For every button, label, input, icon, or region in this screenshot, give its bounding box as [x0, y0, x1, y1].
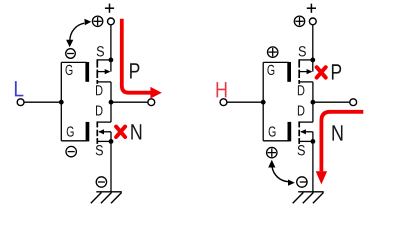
- left NMOS pin G: [67, 126, 74, 136]
- output node junction: [311, 100, 316, 105]
- wire: common gate vertical: [262, 62, 264, 140]
- wire: common gate vertical: [60, 62, 62, 140]
- output node junction: [109, 100, 114, 105]
- PMOS body stub with P-channel arrow: [300, 71, 312, 73]
- red X: NMOS is off: [116, 127, 125, 137]
- label P (left PMOS): [130, 63, 139, 78]
- wire: NMOS source to ground: [312, 141, 314, 191]
- red current-flow arrow (supply through PMOS to output): [122, 19, 151, 93]
- right NMOS pin G: [269, 126, 276, 136]
- PMOS gate electrode bar: [287, 62, 291, 82]
- ground symbol: [91, 192, 122, 204]
- wire: PMOS gate lead: [263, 61, 289, 63]
- attraction arrow between PMOS gate charge and supply charge: [70, 23, 84, 40]
- output terminal: [350, 99, 357, 106]
- NMOS drain stub: [299, 121, 313, 123]
- output terminal: [148, 99, 155, 106]
- label L (input low): [15, 81, 23, 96]
- input terminal: [17, 99, 24, 106]
- negative charge symbol near ground: [96, 177, 106, 187]
- input terminal: [220, 99, 227, 106]
- PMOS drain stub: [97, 81, 111, 83]
- wire: supply to PMOS source: [312, 25, 314, 60]
- wire: input to gate node: [24, 101, 61, 103]
- label N (right NMOS): [332, 125, 342, 140]
- negative charge symbol at NMOS gate: [66, 146, 76, 156]
- power supply + sign: [307, 4, 316, 13]
- PMOS source junction dot: [310, 58, 315, 63]
- ground symbol: [293, 192, 324, 204]
- left NMOS pin D: [96, 106, 103, 116]
- right PMOS pin D: [298, 85, 305, 95]
- PMOS source stub: [299, 59, 313, 61]
- wire: PMOS gate lead: [61, 61, 87, 63]
- NMOS body tie wire: [110, 132, 112, 142]
- positive charge symbol at NMOS gate: [267, 147, 277, 157]
- positive charge symbol at PMOS gate: [268, 47, 278, 57]
- red X: PMOS is off: [317, 67, 326, 77]
- left PMOS pin D: [96, 85, 103, 95]
- NMOS source junction dot: [311, 139, 316, 144]
- label P (right PMOS): [332, 64, 341, 79]
- red current-flow arrow (output through NMOS to ground): [321, 112, 363, 172]
- right NMOS pin S: [298, 145, 305, 155]
- wire: NMOS gate lead: [263, 140, 289, 142]
- wire: NMOS gate lead: [61, 140, 87, 142]
- PMOS gate electrode bar: [85, 62, 89, 82]
- attraction arrow between NMOS gate charge and ground charge: [272, 167, 288, 182]
- power supply + sign: [105, 4, 114, 13]
- PMOS channel (3 segments): [96, 59, 98, 84]
- wire: supply to PMOS source: [110, 25, 112, 60]
- right PMOS pin S: [299, 46, 306, 56]
- PMOS body tie wire: [110, 60, 112, 72]
- positive charge symbol at supply: [294, 16, 304, 26]
- label N (left NMOS): [131, 124, 141, 139]
- wire: input to gate node: [227, 101, 263, 103]
- PMOS body stub with P-channel arrow: [98, 71, 110, 73]
- wire: NMOS source to ground: [110, 141, 112, 191]
- NMOS channel (3 segments): [96, 121, 98, 143]
- NMOS body stub with N-channel arrow: [99, 131, 111, 133]
- wire: output node to output terminal: [313, 101, 350, 103]
- right NMOS pin D: [298, 106, 305, 116]
- power supply terminal: [309, 18, 316, 25]
- right PMOS pin G: [267, 65, 274, 75]
- wire: output node to NMOS drain: [312, 102, 314, 122]
- NMOS drain stub: [97, 121, 111, 123]
- gate node junction: [59, 100, 64, 105]
- NMOS gate electrode bar: [86, 122, 90, 141]
- power supply terminal: [108, 18, 115, 25]
- gate node junction: [261, 100, 266, 105]
- negative charge symbol at PMOS gate: [66, 49, 76, 59]
- NMOS body tie wire: [312, 132, 314, 142]
- wire: PMOS drain to output node: [110, 82, 112, 102]
- PMOS source stub: [97, 59, 111, 61]
- NMOS source junction dot: [109, 139, 114, 144]
- wire: output node to output terminal: [111, 101, 148, 103]
- wire: output node to NMOS drain: [110, 102, 112, 122]
- NMOS source stub: [97, 140, 111, 142]
- PMOS body tie wire: [312, 60, 314, 72]
- label H (input high): [216, 82, 226, 97]
- NMOS source stub: [299, 140, 313, 142]
- positive charge symbol at supply: [92, 16, 102, 26]
- left NMOS pin S: [96, 145, 103, 155]
- PMOS source junction dot: [109, 58, 114, 63]
- wire: PMOS drain to output node: [312, 82, 314, 102]
- left PMOS pin G: [66, 65, 73, 75]
- NMOS channel (3 segments): [298, 121, 300, 143]
- NMOS body stub with N-channel arrow: [301, 131, 313, 133]
- PMOS drain stub: [299, 81, 313, 83]
- NMOS gate electrode bar: [288, 122, 292, 141]
- left PMOS pin S: [97, 46, 104, 56]
- PMOS channel (3 segments): [298, 59, 300, 84]
- negative charge symbol near ground: [297, 177, 307, 187]
